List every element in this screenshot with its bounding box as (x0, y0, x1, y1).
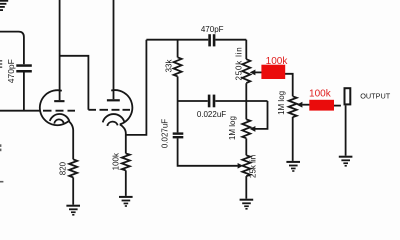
svg-text:470pF: 470pF (201, 25, 224, 34)
resistor R1 820 (V1a cathode) (69, 159, 77, 177)
triode V1a envelope (40, 90, 69, 125)
svg-text:100k: 100k (266, 56, 289, 67)
wire (cathode junction to tone stack riser) (126, 40, 147, 135)
wiper VR3 arrow (from left) (238, 163, 244, 169)
triode V1b plate bar (107, 99, 120, 101)
output jack J1 (345, 88, 351, 104)
annotation red box 100k (over VR4 wiper) (309, 100, 334, 111)
resistor R2 100k (V1b cathode) (122, 154, 130, 171)
wire (V1b plate lead from top edge) (113, 0, 115, 99)
wire (R1 to ground) (72, 177, 74, 204)
ground (partial, top-left corner) (0, 0, 8, 11)
wiper VR1 arrow (250, 70, 256, 76)
svg-text:1M log: 1M log (277, 91, 286, 115)
triode V1a cathode curls (50, 114, 70, 121)
svg-text:250k lin: 250k lin (235, 47, 244, 81)
svg-text:0.022uF: 0.022uF (197, 110, 226, 119)
wire (tone stack top rail, left half) (146, 39, 208, 41)
annotation red box 100k (over VR1 wiper) (261, 65, 285, 79)
svg-text:0.027uF: 0.027uF (161, 119, 170, 148)
wire (VR2 bottom to VR3) (245, 138, 247, 155)
ground (below jack) (339, 156, 353, 167)
triode V1b grid (dashed) (88, 109, 130, 111)
ground (below VR4) (286, 161, 300, 172)
svg-text:470pF: 470pF (6, 59, 16, 83)
node A (cut-off marks on left edge) (0, 60, 3, 183)
wire (tone stack top rail, right half) (215, 39, 246, 41)
capacitor C3 0.022uF (mid coupling) (178, 100, 208, 102)
capacitor C1 470pF (input coupling) (16, 64, 32, 72)
wire (C1 bottom to grid node) (23, 73, 25, 111)
wire (plate V1a jog to V1b grid) (60, 56, 89, 110)
wire (red box to output jack) (334, 105, 341, 107)
wire (R2 to ground) (125, 170, 127, 196)
wire (V1b cathode lead down to R2) (120, 124, 126, 153)
wire (VR1 bottom through mid rail to VR2) (245, 83, 247, 119)
triode V1a plate bar (54, 100, 64, 102)
wire (jack sleeve to ground) (345, 105, 347, 155)
wire (left-edge grid wire into V1 grid) (0, 110, 41, 112)
ground (below R2) (119, 196, 133, 207)
wire (VR2 wiper up to mid rail) (255, 101, 268, 129)
wire (VR4 bottom to ground) (292, 117, 294, 161)
svg-text:100k: 100k (111, 152, 120, 170)
svg-text:25k lin: 25k lin (249, 155, 258, 178)
potentiometer VR4 1M log (volume) (289, 96, 297, 117)
wiper VR2 arrow (250, 126, 256, 132)
wire (VR1 wiper exit to VR4 top) (285, 74, 293, 97)
wire (input corner from left edge down to C1) (0, 32, 24, 65)
wire (V1a plate lead from top edge) (59, 0, 61, 100)
triode V1a grid (dashed) (43, 110, 75, 112)
potentiometer VR3 25k lin (mid) (242, 155, 250, 176)
svg-text:100k: 100k (309, 89, 332, 100)
ground (below VR3) (240, 199, 254, 210)
capacitor C2 470pF (treble) (208, 34, 215, 46)
wire (33k branch from top rail) (177, 40, 179, 58)
svg-text:33k: 33k (165, 59, 174, 73)
triode V1b envelope (111, 90, 132, 124)
wire (VR3 bottom to ground) (245, 176, 247, 199)
wire (V1a cathode lead down to R1) (69, 121, 74, 159)
svg-text:1M log: 1M log (228, 116, 237, 140)
triode V1b cathode curls (103, 114, 125, 122)
svg-text:OUTPUT: OUTPUT (360, 92, 391, 101)
wire (33k bottom to C4) (177, 76, 179, 132)
potentiometer VR2 1M log (bass) (242, 119, 250, 138)
svg-text:820: 820 (58, 161, 67, 175)
wire (C4 bottom to 25k wiper) (178, 138, 238, 165)
potentiometer VR1 250k lin (treble) (245, 40, 247, 60)
ground (below R1) (66, 205, 80, 216)
capacitor C4 0.027uF (173, 132, 184, 138)
resistor R3 33k (174, 57, 182, 76)
wiper VR4 arrow (297, 102, 303, 108)
